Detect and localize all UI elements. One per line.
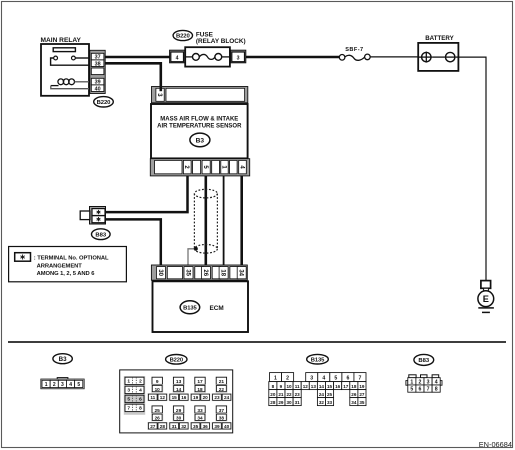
svg-text:(RELAY BLOCK): (RELAY BLOCK): [196, 38, 246, 45]
svg-text:11: 11: [295, 384, 300, 389]
svg-text:23: 23: [214, 395, 220, 400]
svg-text:AMONG 1, 2, 5 AND 6: AMONG 1, 2, 5 AND 6: [37, 271, 96, 277]
svg-text:2: 2: [139, 379, 142, 385]
svg-text:B220: B220: [170, 357, 183, 363]
svg-text:B83: B83: [95, 232, 107, 238]
svg-text:14: 14: [176, 387, 182, 392]
svg-text:B3: B3: [196, 137, 205, 144]
svg-text:13: 13: [176, 379, 182, 385]
svg-text:7: 7: [358, 376, 361, 382]
svg-text:ARRANGEMENT: ARRANGEMENT: [37, 263, 83, 269]
svg-text:8: 8: [272, 384, 275, 389]
svg-text:39: 39: [214, 424, 220, 429]
svg-text:2: 2: [53, 382, 56, 388]
svg-text:5: 5: [334, 376, 337, 382]
svg-text:10: 10: [155, 387, 161, 392]
svg-text:16: 16: [335, 384, 341, 389]
svg-text:26: 26: [202, 269, 208, 276]
svg-text:32: 32: [181, 424, 187, 429]
svg-text:31: 31: [295, 400, 301, 405]
svg-text:5: 5: [127, 397, 130, 403]
svg-text:6: 6: [346, 376, 349, 382]
svg-text:10: 10: [286, 384, 292, 389]
svg-text:3: 3: [427, 379, 430, 385]
svg-text:4: 4: [139, 388, 142, 394]
svg-text:35: 35: [359, 400, 365, 405]
svg-text:17: 17: [197, 379, 203, 385]
svg-text:3: 3: [310, 376, 313, 382]
svg-text:18: 18: [197, 387, 203, 392]
svg-text:BATTERY: BATTERY: [425, 35, 454, 42]
svg-text:12: 12: [303, 384, 309, 389]
svg-text:23: 23: [295, 392, 301, 397]
svg-text:20: 20: [203, 395, 209, 400]
svg-text:24: 24: [319, 392, 325, 397]
svg-text:34: 34: [197, 416, 203, 421]
svg-text:1: 1: [410, 379, 413, 385]
svg-text:14: 14: [319, 384, 325, 389]
svg-text:MASS AIR FLOW & INTAKE: MASS AIR FLOW & INTAKE: [160, 117, 238, 123]
svg-text:: TERMINAL No. OPTIONAL: : TERMINAL No. OPTIONAL: [34, 255, 109, 261]
svg-text:26: 26: [155, 416, 161, 421]
svg-text:34: 34: [351, 400, 357, 405]
svg-text:2: 2: [286, 376, 289, 382]
svg-text:B135: B135: [311, 357, 325, 363]
svg-text:20: 20: [270, 392, 276, 397]
svg-text:1: 1: [274, 376, 277, 382]
svg-text:9: 9: [280, 384, 283, 389]
svg-text:12: 12: [160, 395, 166, 400]
svg-text:2: 2: [419, 379, 422, 385]
svg-text:28: 28: [160, 424, 166, 429]
svg-text:6: 6: [139, 397, 142, 403]
svg-text:18: 18: [220, 269, 226, 276]
svg-text:29: 29: [278, 400, 284, 405]
svg-text:19: 19: [193, 395, 199, 400]
svg-text:28: 28: [270, 400, 276, 405]
svg-text:40: 40: [95, 86, 101, 92]
svg-text:18: 18: [351, 384, 357, 389]
svg-text:30: 30: [176, 416, 182, 421]
svg-text:35: 35: [193, 424, 199, 429]
svg-text:36: 36: [203, 424, 209, 429]
svg-text:MAIN RELAY: MAIN RELAY: [41, 37, 82, 44]
svg-text:27: 27: [359, 392, 365, 397]
svg-text:3: 3: [127, 388, 130, 394]
svg-text:8: 8: [435, 387, 438, 393]
svg-text:4: 4: [435, 379, 438, 385]
svg-text:4: 4: [69, 382, 72, 388]
svg-text:30: 30: [157, 269, 163, 276]
svg-text:21: 21: [219, 379, 225, 385]
svg-text:19: 19: [359, 384, 365, 389]
svg-text:17: 17: [343, 384, 349, 389]
svg-text:1: 1: [127, 379, 130, 385]
svg-text:ECM: ECM: [210, 305, 224, 312]
svg-text:26: 26: [351, 392, 357, 397]
svg-text:4: 4: [322, 376, 325, 382]
svg-text:15: 15: [172, 395, 178, 400]
svg-text:AIR TEMPERATURE SENSOR: AIR TEMPERATURE SENSOR: [157, 124, 242, 130]
svg-text:11: 11: [150, 395, 155, 400]
svg-text:B83: B83: [418, 358, 430, 364]
svg-text:8: 8: [139, 406, 142, 412]
svg-text:7: 7: [427, 387, 430, 393]
svg-text:3: 3: [237, 56, 240, 62]
svg-text:4: 4: [176, 56, 179, 62]
svg-text:B3: B3: [59, 356, 67, 363]
svg-text:24: 24: [224, 395, 230, 400]
svg-text:34: 34: [238, 269, 244, 276]
svg-text:37: 37: [219, 408, 225, 414]
svg-text:16: 16: [181, 395, 187, 400]
svg-text:40: 40: [224, 424, 230, 429]
svg-text:5: 5: [410, 387, 413, 393]
svg-text:1: 1: [45, 382, 48, 388]
svg-text:6: 6: [419, 387, 422, 393]
svg-text:SBF-7: SBF-7: [345, 47, 363, 53]
svg-text:38: 38: [219, 416, 225, 421]
svg-text:30: 30: [286, 400, 292, 405]
svg-text:22: 22: [286, 392, 292, 397]
svg-text:29: 29: [176, 408, 182, 414]
svg-text:25: 25: [155, 408, 161, 414]
svg-text:32: 32: [319, 400, 325, 405]
svg-text:B220: B220: [176, 34, 191, 40]
svg-text:7: 7: [127, 406, 130, 412]
svg-text:13: 13: [311, 384, 317, 389]
svg-text:33: 33: [327, 400, 333, 405]
svg-text:33: 33: [197, 408, 203, 414]
svg-text:B135: B135: [183, 306, 197, 312]
svg-text:22: 22: [219, 387, 225, 392]
svg-text:9: 9: [156, 379, 159, 385]
svg-text:15: 15: [327, 384, 333, 389]
svg-text:25: 25: [327, 392, 333, 397]
svg-text:3: 3: [61, 382, 64, 388]
svg-text:31: 31: [172, 424, 178, 429]
svg-text:E: E: [483, 294, 489, 304]
svg-text:35: 35: [184, 269, 190, 276]
svg-text:38: 38: [95, 61, 101, 67]
svg-text:EN-06684: EN-06684: [479, 440, 512, 449]
svg-text:B220: B220: [97, 100, 112, 106]
svg-text:5: 5: [77, 382, 80, 388]
svg-text:27: 27: [150, 424, 156, 429]
svg-text:21: 21: [278, 392, 284, 397]
